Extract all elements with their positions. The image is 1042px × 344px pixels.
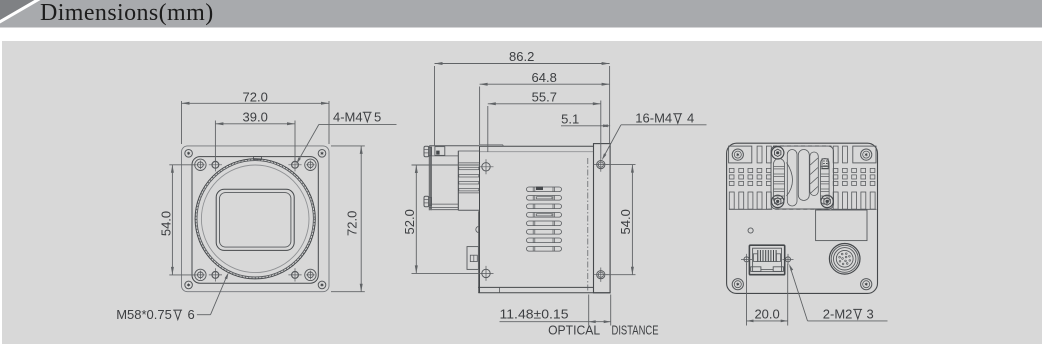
dim 72.0 top extension lines <box>181 101 183 144</box>
header white stripe <box>0 0 41 24</box>
svg-text:11.48±0.15: 11.48±0.15 <box>500 306 569 321</box>
counterbore hole 1 <box>195 159 206 170</box>
fan housing left face <box>428 146 430 211</box>
side body top inner line <box>480 151 594 153</box>
front view outer square <box>182 146 330 292</box>
side body bottom <box>478 286 593 288</box>
svg-text:5: 5 <box>374 109 381 124</box>
rear flange hole 1 <box>597 161 605 169</box>
fan housing tab screw bottom <box>424 196 429 207</box>
lens mount second circle <box>197 161 313 277</box>
dim 55.7 line <box>488 103 601 105</box>
heatsink base line <box>729 208 768 210</box>
svg-text:OPTICAL: OPTICAL <box>548 323 600 338</box>
svg-text:54.0: 54.0 <box>159 211 174 236</box>
side rear flange plate <box>594 144 611 293</box>
tapped hole M4 4 <box>292 272 299 279</box>
heatsink bottom fins <box>729 192 734 209</box>
back corner screw 1 <box>732 149 743 160</box>
fan plate <box>771 146 834 209</box>
dim 52.0 extension lines <box>412 164 481 166</box>
header dark triangle <box>0 0 35 20</box>
RJ45 connector outer <box>749 245 784 275</box>
heatsink top fins <box>757 146 762 163</box>
dim 64.8 line <box>480 83 610 85</box>
fan housing inner vertical <box>457 151 459 211</box>
dim 72.0 right line <box>360 146 362 292</box>
fan housing cap box <box>435 147 445 156</box>
RJ45 inner <box>753 248 782 271</box>
connector pins <box>849 260 851 262</box>
heatsink dash rows <box>729 168 734 172</box>
dim 55.7 extension lines <box>487 106 489 152</box>
sensor window inner <box>220 193 291 248</box>
counterbore hole 3 <box>195 269 206 280</box>
svg-text:5.1: 5.1 <box>561 111 579 126</box>
svg-text:39.0: 39.0 <box>243 110 268 125</box>
svg-text:52.0: 52.0 <box>402 209 417 234</box>
front corner screw 3 <box>185 281 193 289</box>
fan screw 3 <box>821 195 833 207</box>
fan housing groove bands <box>459 167 479 169</box>
rear flange hole 2 <box>597 271 605 279</box>
tapped hole M4 1 <box>212 161 219 168</box>
fan blade arc <box>787 163 793 197</box>
leader M58 <box>197 314 211 316</box>
fan housing bottom lines <box>429 203 458 205</box>
back inner rectangle <box>816 210 867 241</box>
dim 11.48 extension lines <box>588 295 590 326</box>
lens mount outer circle <box>195 159 315 279</box>
fan housing tab screw top <box>424 146 429 157</box>
dim 54.0 right line <box>631 165 633 275</box>
fan housing lines <box>429 155 458 157</box>
dim 11.48 line <box>500 321 589 323</box>
svg-text:64.8: 64.8 <box>532 70 557 85</box>
dim 64.8 extension line <box>479 87 481 146</box>
dim 54.0 left extension lines <box>169 164 196 166</box>
fan hatched capsule <box>810 152 819 196</box>
circular IO connector <box>829 243 860 274</box>
fan capsule mid2 <box>798 150 809 201</box>
heatsink corner plate right <box>853 146 876 163</box>
dim 54.0 left line <box>171 165 173 275</box>
back corner screw 4 <box>861 279 872 290</box>
counterbore hole 4 <box>305 269 316 280</box>
front face notch <box>476 226 479 232</box>
svg-text:54.0: 54.0 <box>618 209 633 234</box>
side body top edge <box>480 145 594 147</box>
svg-text:DISTANCE: DISTANCE <box>612 323 659 338</box>
front corner screw 4 <box>318 281 326 289</box>
dim 39.0 extension lines <box>214 121 216 162</box>
svg-text:55.7: 55.7 <box>532 90 557 105</box>
heatsink corner plate left <box>729 146 752 163</box>
dim 20.0 extension lines <box>746 264 748 326</box>
side body front face <box>479 146 481 293</box>
fan capsule mid1 <box>787 150 797 207</box>
dim 5.1 <box>561 125 601 127</box>
lens knurled ring texture <box>196 160 314 278</box>
side face hole 1 <box>482 163 490 171</box>
fan screw 2 <box>772 195 784 207</box>
fan capsule left <box>774 159 785 205</box>
dim 72.0 top line <box>182 102 330 104</box>
RJ45 feet <box>751 267 761 272</box>
M2 screw 2 <box>786 257 791 262</box>
svg-text:16-M4: 16-M4 <box>635 111 672 126</box>
tapped hole M4 3 <box>212 272 219 279</box>
fan capsule right <box>821 159 830 205</box>
dim 86.2 extension lines <box>434 66 436 146</box>
front corner screw 1 <box>185 150 193 158</box>
svg-text:2-M2: 2-M2 <box>823 306 853 321</box>
sensor plane dash-dot line <box>587 158 589 292</box>
front inner mounting plate <box>192 157 318 284</box>
vent slots <box>527 187 562 192</box>
svg-text:M58*0.75: M58*0.75 <box>116 307 172 322</box>
front corner screw 2 <box>318 150 326 158</box>
dim 39.0 line <box>215 123 295 125</box>
dim 86.2 line <box>435 63 610 65</box>
back view outer square <box>727 143 878 293</box>
leader 16-M4 <box>621 124 707 126</box>
vent slot engraving <box>536 187 543 190</box>
lens mount inner circle <box>201 165 309 273</box>
status LED <box>748 228 753 233</box>
dim 20.0 line <box>747 320 788 322</box>
svg-text:20.0: 20.0 <box>754 307 779 322</box>
RJ45 pins <box>757 250 759 262</box>
label 4-M4 depth 5 leader <box>319 123 397 125</box>
fan screw 1 <box>772 147 784 159</box>
svg-text:72.0: 72.0 <box>243 89 268 104</box>
dim 54.0 right extension lines <box>606 164 636 166</box>
tripod boss B detail <box>467 247 478 270</box>
tapped hole M4 2 <box>292 161 299 168</box>
svg-text:4-M4: 4-M4 <box>333 109 363 124</box>
label 2-M2 depth 3 leader <box>789 264 793 271</box>
svg-text:3: 3 <box>867 306 874 321</box>
dim 52.0 line <box>415 165 417 273</box>
side face hole 2 <box>482 269 490 277</box>
fan housing top edge <box>429 145 479 147</box>
svg-text:86.2: 86.2 <box>509 49 534 64</box>
dim 72.0 right extension lines <box>331 145 365 147</box>
RJ45 side latches <box>753 254 757 262</box>
back corner screw 2 <box>861 149 872 160</box>
fan label dots <box>822 159 828 169</box>
side body top step <box>480 144 504 146</box>
header gray bar <box>0 0 1042 28</box>
side body bottom plate <box>478 292 610 294</box>
svg-text:6: 6 <box>188 307 195 322</box>
sensor window outer <box>216 189 294 250</box>
svg-text:72.0: 72.0 <box>345 211 360 236</box>
counterbore hole 2 <box>305 159 316 170</box>
M2 screw 1 <box>744 257 749 262</box>
svg-text:4: 4 <box>687 111 694 126</box>
svg-text:Dimensions(mm): Dimensions(mm) <box>40 0 214 26</box>
back corner screw 3 <box>732 279 743 290</box>
lens ring top notch <box>254 157 262 160</box>
